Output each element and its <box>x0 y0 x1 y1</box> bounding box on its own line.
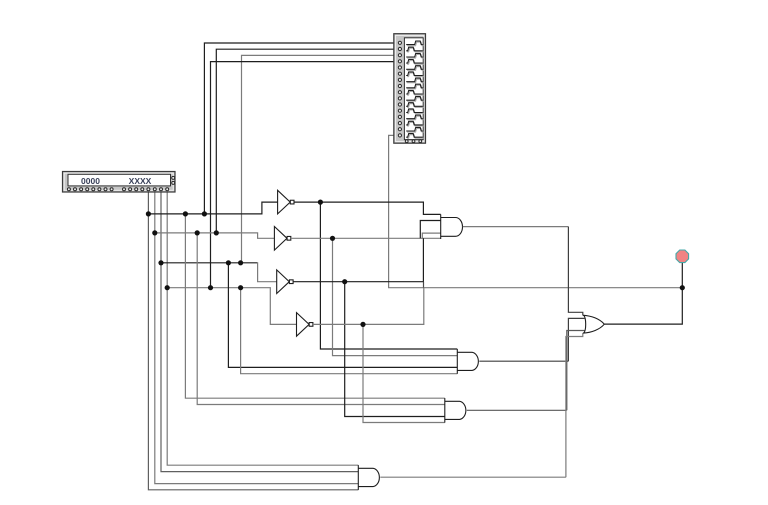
wire inverter U4 output row <box>313 288 424 325</box>
wire jog to AND1 input 3 <box>422 233 440 238</box>
wire inverter U3 output row <box>293 238 423 281</box>
wire row A to inverter U1 input <box>148 202 277 214</box>
junction row C / branch <box>226 260 231 265</box>
wire display bit0 vertical to AND4 input 4 <box>148 191 358 490</box>
wire row D to inverter U4 input <box>167 288 296 325</box>
wire inverter U3 output branch to AND3 input 3 <box>345 282 445 417</box>
wire stub below U3 corner <box>423 282 425 288</box>
junction U3 output <box>342 279 347 284</box>
wire node C branch to AND2 input 3 <box>228 263 457 368</box>
junction row D / branch <box>238 285 243 290</box>
junction row B / display bit1 <box>152 230 157 235</box>
wire from DIP pin16 to output net <box>389 135 683 287</box>
AND gate G4 <box>358 465 379 490</box>
junction row A / branch <box>183 211 188 216</box>
wire inverter U4 output branch to AND3 input 4 <box>363 324 445 422</box>
display component U5 frame <box>63 172 176 193</box>
wire AND2 output to OR input 2 <box>479 360 568 362</box>
AND gate G1 <box>441 214 463 239</box>
junction row A / display bit0 <box>146 211 151 216</box>
wire inverter U1 output branch to AND2 input 1 <box>320 202 457 349</box>
wire display bit2 vertical to AND4 input 2 <box>161 191 358 472</box>
wire row B to inverter U2 input <box>155 233 275 238</box>
DIP switch lever shadows <box>407 42 424 138</box>
wire AND4 output to OR input 4 <box>380 476 566 478</box>
junction row C / display bit2 <box>158 260 163 265</box>
AND gate G2 <box>457 349 478 374</box>
junction row C / DIP wire 3 <box>238 260 243 265</box>
DIP switch levers <box>406 41 423 137</box>
display bottom pins <box>67 188 168 191</box>
junction row D / display bit3 <box>165 285 170 290</box>
wire inverter U2 output branch to AND2 input 2 <box>333 238 458 355</box>
inverter U4 <box>297 313 313 337</box>
wire from DIP pin2 to node B <box>216 49 398 233</box>
DIP switch pins <box>398 41 401 137</box>
wire node B branch to AND3 input 2 <box>197 233 445 405</box>
output pin P1 (red) <box>676 250 689 263</box>
wire AND3 output to OR input 3 <box>467 409 567 411</box>
wire from DIP pin3 to node C <box>242 55 399 262</box>
wire node D branch to AND2 input 4 <box>241 288 458 374</box>
DIP switch component S1 frame <box>394 34 426 144</box>
junction U2 output <box>330 236 335 241</box>
display right pins <box>172 176 175 184</box>
wire inverter U2 output to AND1 input 4 <box>291 237 441 239</box>
junction U4 output <box>360 322 365 327</box>
inverter U3 <box>277 270 293 294</box>
OR gate G5 <box>583 315 604 333</box>
junction U1 output <box>318 200 323 205</box>
DIP switch bottom pins <box>405 140 421 143</box>
junction output net <box>680 285 685 290</box>
wire node A branch to AND3 input 1 <box>185 214 444 398</box>
wire row C to inverter U3 input <box>161 262 258 264</box>
inverter U1 <box>278 190 294 214</box>
svg-text:XXXX: XXXX <box>129 176 152 186</box>
wire OR output to output pin <box>604 262 682 324</box>
wire inverter U1 output to AND1 input 1 <box>294 202 441 214</box>
wire jog to AND1 input 2 <box>420 221 440 239</box>
junction row B / branch <box>195 230 200 235</box>
wire from DIP pin4 to node D <box>211 62 399 288</box>
AND gate G3 <box>445 398 466 423</box>
wire from DIP pin1 to node A <box>204 43 398 214</box>
junction row B / DIP wire 2 <box>214 230 219 235</box>
svg-text:0000: 0000 <box>81 176 100 186</box>
wire display bit1 vertical to AND4 input 3 <box>155 191 358 484</box>
wire AND1 output to OR input 1 <box>463 226 569 228</box>
wire display bit3 vertical to AND4 input 1 <box>167 191 358 466</box>
inverter U2 <box>274 227 290 251</box>
junction row D / DIP wire 4 <box>208 285 213 290</box>
junction row A / DIP wire 1 <box>202 211 207 216</box>
